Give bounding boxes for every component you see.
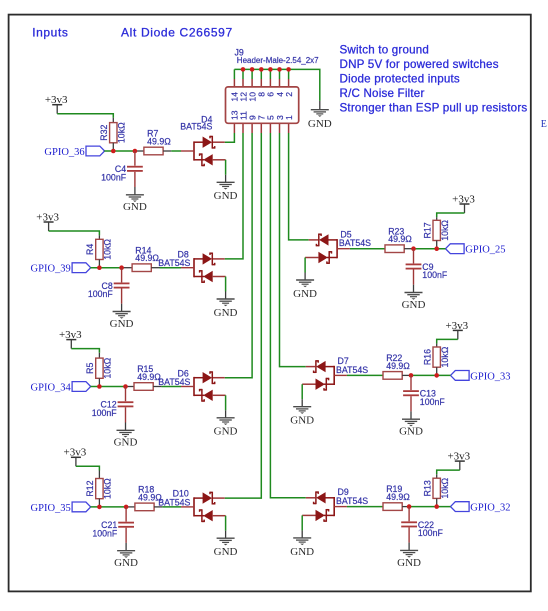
svg-text:BAT54S: BAT54S [158,258,190,268]
svg-text:R/C Noise Filter: R/C Noise Filter [340,87,425,100]
svg-text:49.9Ω: 49.9Ω [135,253,159,263]
svg-text:R12: R12 [85,480,95,496]
svg-text:GND: GND [214,546,238,558]
svg-text:Inputs: Inputs [32,25,68,39]
svg-text:10kΩ: 10kΩ [440,346,450,367]
svg-text:1: 1 [284,115,294,120]
svg-text:GND: GND [290,546,314,558]
svg-text:GND: GND [290,415,314,427]
svg-text:GND: GND [114,437,138,449]
svg-text:E: E [541,119,547,130]
svg-text:GPIO_25: GPIO_25 [465,245,505,256]
svg-text:GND: GND [399,426,423,438]
svg-text:GPIO_36: GPIO_36 [44,147,84,158]
svg-text:100nF: 100nF [420,397,446,407]
svg-text:GND: GND [110,318,134,330]
svg-text:Diode protected inputs: Diode protected inputs [340,73,460,86]
svg-text:BAT54S: BAT54S [339,238,371,248]
svg-text:GPIO_39: GPIO_39 [31,264,71,275]
svg-text:GPIO_32: GPIO_32 [470,503,510,514]
svg-text:10kΩ: 10kΩ [440,477,450,498]
svg-text:GND: GND [308,118,332,130]
svg-text:R13: R13 [423,480,433,496]
svg-text:GPIO_35: GPIO_35 [31,503,71,514]
svg-text:GND: GND [293,288,317,300]
svg-text:GND: GND [214,307,238,319]
svg-text:10kΩ: 10kΩ [440,220,450,241]
svg-text:GND: GND [397,557,421,569]
svg-text:2: 2 [284,92,294,97]
svg-text:100nF: 100nF [88,289,114,299]
svg-text:49.9Ω: 49.9Ω [147,136,171,146]
svg-text:BAT54S: BAT54S [180,122,212,132]
svg-text:R4: R4 [85,244,95,255]
svg-text:10kΩ: 10kΩ [103,357,113,378]
svg-text:49.9Ω: 49.9Ω [386,361,410,371]
svg-text:GND: GND [214,426,238,438]
svg-text:BAT54S: BAT54S [158,377,190,387]
svg-text:BAT54S: BAT54S [336,365,368,375]
svg-text:GPIO_33: GPIO_33 [470,371,510,382]
svg-text:GND: GND [402,299,426,311]
svg-text:10kΩ: 10kΩ [103,239,113,260]
svg-text:10kΩ: 10kΩ [103,478,113,499]
svg-text:100nF: 100nF [92,408,118,418]
svg-text:100nF: 100nF [422,270,448,280]
svg-text:R32: R32 [99,125,109,141]
svg-text:49.9Ω: 49.9Ω [386,492,410,502]
svg-text:100nF: 100nF [92,528,118,538]
svg-text:GND: GND [214,190,238,202]
svg-text:Switch to ground: Switch to ground [340,43,430,56]
svg-text:Alt Diode C266597: Alt Diode C266597 [121,26,233,40]
svg-text:Header-Male-2.54_2x7: Header-Male-2.54_2x7 [237,56,319,65]
svg-text:GND: GND [114,557,138,569]
svg-text:R5: R5 [85,362,95,373]
svg-text:BAT54S: BAT54S [336,496,368,506]
svg-text:Stronger than ESP pull up resi: Stronger than ESP pull up resistors [340,102,528,115]
svg-text:10kΩ: 10kΩ [117,122,127,143]
svg-text:DNP 5V for powered switches: DNP 5V for powered switches [340,58,499,71]
svg-text:R17: R17 [423,222,433,238]
svg-text:GND: GND [123,201,147,213]
svg-text:R16: R16 [423,349,433,365]
svg-text:100nF: 100nF [418,528,444,538]
svg-text:49.9Ω: 49.9Ω [388,234,412,244]
svg-text:GPIO_34: GPIO_34 [31,382,72,393]
svg-text:100nF: 100nF [101,172,127,182]
svg-text:BAT54S: BAT54S [158,497,190,507]
